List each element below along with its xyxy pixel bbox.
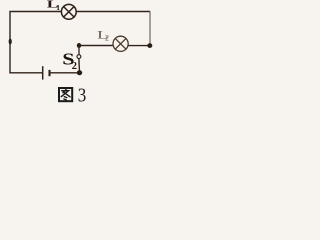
lamp L2 cross	[115, 38, 126, 49]
switch S2 top terminal dot	[77, 43, 81, 48]
battery B1 short plate	[48, 70, 50, 76]
wire bottom-left segment to battery	[9, 72, 42, 74]
svg-text:1: 1	[56, 3, 60, 12]
wire top-right segment	[76, 11, 150, 13]
node junction dot right (L2 branch to right wire)	[147, 43, 152, 48]
wire battery to switch	[49, 72, 79, 74]
battery B1 long plate	[42, 66, 44, 79]
svg-text:2: 2	[105, 34, 109, 43]
wire right vertical segment	[149, 11, 151, 45]
switch S2 pivot circle	[77, 55, 81, 59]
switch S2 blade	[78, 59, 81, 73]
lamp L1 cross	[64, 7, 74, 17]
svg-text:3: 3	[78, 85, 87, 107]
wire L2 branch left (switch to lamp)	[79, 45, 113, 47]
switch S2 bottom terminal dot	[77, 70, 82, 75]
node dot on left wire	[9, 39, 12, 45]
switch S2 stem wire	[78, 46, 80, 55]
wire top-left segment	[10, 12, 62, 73]
wire L2 branch right (lamp to junction)	[128, 45, 150, 47]
caption character 图 (drawn)	[59, 88, 72, 101]
lamp L2 circle	[113, 36, 128, 51]
svg-text:2: 2	[72, 61, 77, 72]
lamp L1 circle	[61, 4, 76, 19]
